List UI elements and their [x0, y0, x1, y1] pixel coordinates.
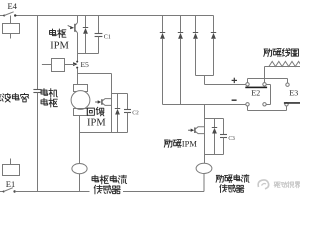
contact terminals E2/E3 [246, 83, 249, 86]
diode bridge leg 1 [162, 16, 164, 33]
capacitor C1 [98, 16, 100, 34]
gate driver box [42, 64, 52, 66]
coil 励磁线圈 zigzag [269, 61, 309, 66]
label - [232, 99, 237, 101]
wire [205, 118, 224, 120]
label + [232, 79, 237, 81]
capacitor C2 [127, 94, 129, 110]
node E5 [76, 61, 78, 63]
label 电枢 IPM [50, 29, 57, 36]
wire: bottom rail [0, 191, 3, 193]
transistor: excitation IPM IGBT [204, 105, 206, 155]
capacitor: filter cap [33, 89, 41, 91]
wire: bridge - output [163, 104, 246, 106]
diode: armature freewheel [85, 16, 87, 28]
wire [80, 132, 128, 134]
wire: filter cap branch [37, 16, 39, 90]
switch E4 [3, 15, 5, 17]
transistor: armature IPM IGBT [77, 16, 79, 23]
contact E2 closed bar [245, 87, 267, 89]
label 励磁IPM [164, 140, 172, 148]
transistor: feedback IPM IGBT [111, 94, 113, 133]
wire: bridge + output [196, 75, 214, 77]
diode bridge leg 3 [195, 16, 197, 33]
diode: feedback [117, 94, 119, 109]
relay coil E4 box [10, 16, 12, 24]
contact E3 bar to edge [284, 102, 300, 104]
watermark text 驱动视界 [274, 182, 280, 187]
wire: E2 right to bottom row [266, 84, 270, 86]
wire: minus rail to E3 bottom [247, 106, 249, 111]
wire: top supply rail [0, 15, 4, 17]
label 励磁电流传感器 [216, 175, 224, 182]
wire: contact top header [248, 78, 288, 80]
wire: motor to sensor [79, 116, 81, 164]
switch E1 [3, 191, 5, 193]
capacitor C3 [223, 119, 225, 135]
motor armature 电机电枢 [74, 85, 88, 92]
sensor: excitation current [196, 163, 212, 173]
wire: E5 branch to feedback IPM [78, 73, 112, 75]
wire [205, 154, 224, 156]
relay coil E1 box [10, 159, 12, 165]
label 回馈 IPM [87, 108, 94, 115]
sensor: armature current [72, 164, 87, 174]
diode bridge leg 2 [180, 16, 182, 33]
excitation coil wire [264, 67, 266, 83]
label 励磁线圈 [264, 49, 272, 57]
label 电枢电流传感器 [90, 174, 124, 195]
label 滤波电容 [0, 93, 1, 102]
watermark logo [258, 180, 269, 189]
diode bridge leg 4 [213, 16, 215, 33]
diode: excitation freewheel [214, 119, 216, 128]
wire [112, 93, 128, 95]
wire [78, 53, 99, 55]
